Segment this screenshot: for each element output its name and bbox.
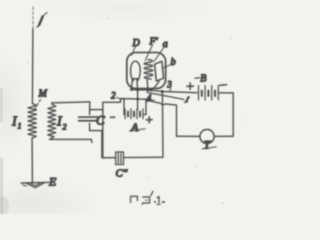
scan speck	[195, 165, 197, 167]
wire corner to telephone T	[214, 135, 233, 137]
figure caption Fig.1	[131, 191, 165, 204]
battery A loop left wire	[123, 99, 125, 115]
junction dot node 3 wire	[161, 90, 164, 93]
scan speck	[146, 177, 147, 178]
leader line to 1	[147, 92, 184, 99]
svg-text:C″: C″	[116, 168, 128, 180]
node 2 wire to filament circuit	[103, 99, 124, 103]
leader from a	[154, 48, 163, 61]
node 4 loop left vertical	[176, 105, 178, 136]
svg-text:D: D	[132, 38, 141, 49]
inductance coil I1	[28, 104, 37, 139]
svg-text:B: B	[200, 74, 206, 85]
audion envelope D	[127, 53, 166, 89]
scan edge smudge left middle	[0, 88, 3, 122]
earth lead wire	[31, 138, 33, 183]
capacitor C top plate	[79, 116, 98, 118]
svg-text:M: M	[38, 88, 48, 99]
leader from F'	[145, 45, 152, 60]
scan edge smudge left lower	[0, 158, 3, 214]
scan speck	[107, 17, 109, 19]
junction dot	[130, 88, 132, 90]
inductance coil I2	[48, 103, 56, 140]
dashed leader from M	[35, 100, 41, 110]
svg-text:a: a	[163, 39, 168, 50]
svg-text:A: A	[130, 120, 139, 134]
battery B cells	[199, 85, 219, 100]
secondary loop right wire lower stub	[89, 123, 91, 130]
right side vertical wire	[232, 93, 234, 136]
leader from b	[163, 65, 171, 68]
label V	[37, 13, 47, 28]
filament battery feed wire	[137, 90, 139, 110]
plate lead	[151, 81, 159, 90]
svg-text:2: 2	[111, 90, 116, 100]
svg-text:2: 2	[63, 123, 67, 132]
battery A cells	[124, 109, 146, 119]
scan speck	[244, 119, 245, 120]
plus sign for A	[146, 117, 152, 123]
scan corner blob bottom-left	[0, 196, 9, 216]
wire B to right corner	[218, 92, 233, 94]
svg-text:b: b	[171, 57, 176, 68]
battery A loop top wire	[121, 98, 147, 101]
scan speck	[27, 62, 28, 63]
scan speck	[61, 202, 62, 203]
junction dot	[136, 88, 139, 91]
junction dot	[150, 89, 152, 91]
leader from D	[132, 47, 136, 56]
grid column vertical wire	[102, 103, 104, 158]
grid coil a	[144, 60, 153, 80]
C'' loop bottom wire right part	[124, 156, 164, 158]
capacitor C bottom plate	[79, 120, 98, 122]
condenser C''	[116, 152, 124, 165]
return wire node 4 with hop	[146, 100, 177, 105]
plate wire to battery B	[151, 90, 197, 93]
scan speck	[230, 37, 231, 38]
plate b	[155, 61, 164, 81]
grid lead	[146, 80, 149, 90]
scan speck	[222, 202, 224, 204]
svg-text:3: 3	[166, 80, 172, 90]
antenna V dashed upper section	[32, 7, 34, 29]
branch wire to grid column	[90, 109, 103, 111]
secondary loop bottom wire	[50, 139, 92, 142]
svg-text:F′: F′	[149, 37, 159, 48]
svg-text:1: 1	[18, 122, 22, 131]
junction dot	[147, 89, 150, 92]
filament left lead	[131, 79, 132, 90]
svg-text:E: E	[48, 175, 57, 189]
telephone receiver T	[200, 129, 214, 143]
filament loop	[131, 61, 141, 81]
antenna wire	[31, 29, 34, 104]
minus sign for A	[111, 116, 115, 118]
label 1	[184, 97, 189, 102]
minus sign for B	[220, 84, 227, 87]
filament bus wire	[131, 89, 151, 92]
secondary loop top wire	[52, 102, 90, 103]
battery A loop right wire	[145, 99, 147, 114]
C'' loop bottom wire left part	[102, 157, 116, 159]
wire T to node4 loop	[177, 135, 200, 137]
svg-text:C: C	[96, 113, 105, 128]
C'' drop wire	[161, 92, 164, 158]
filament right lead	[136, 79, 139, 90]
jog wire to condenser loop	[90, 131, 102, 158]
ground E symbol	[21, 182, 49, 187]
secondary loop right wire upper stub	[89, 102, 91, 115]
junction dot	[136, 98, 138, 100]
plus sign for B	[187, 83, 194, 89]
